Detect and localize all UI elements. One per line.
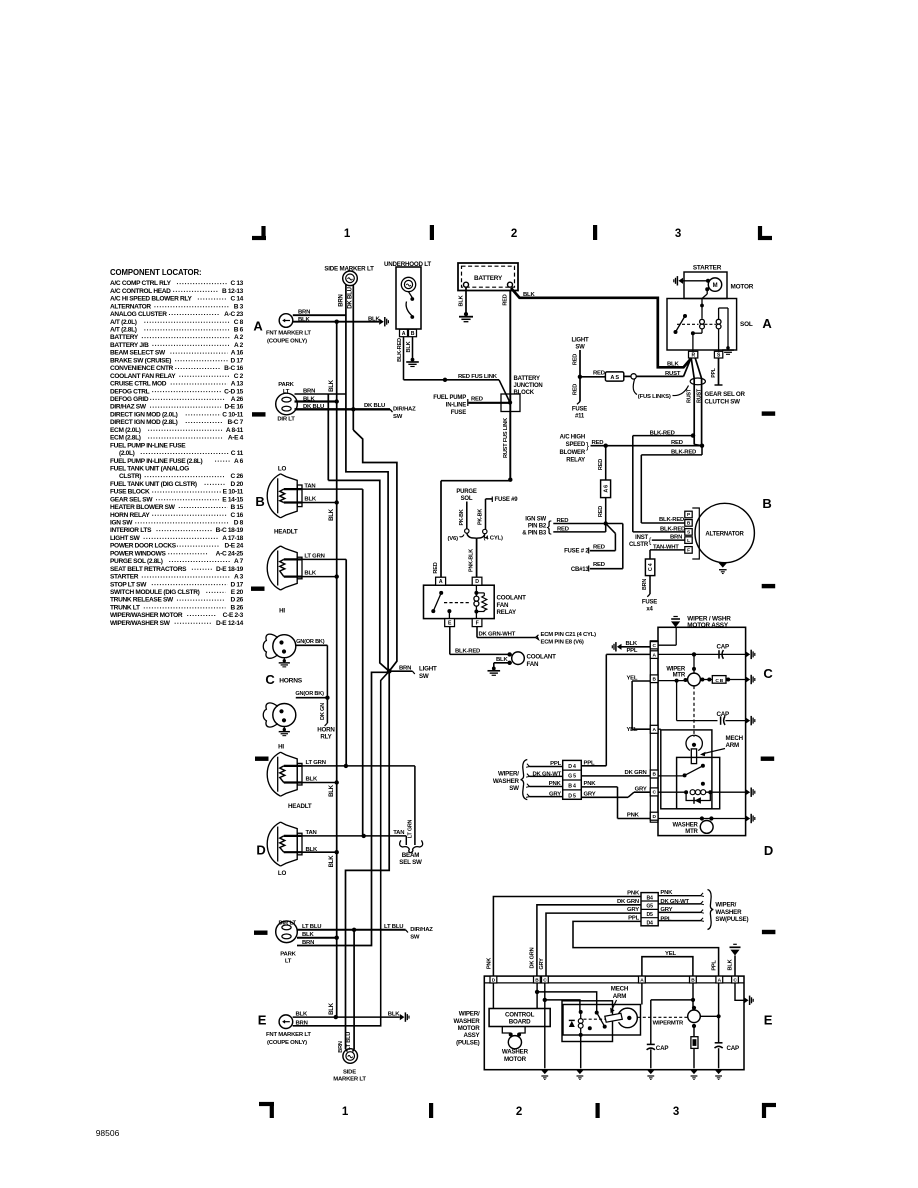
junction node X light sw splice [387, 669, 392, 674]
svg-text:BRN: BRN [296, 1020, 308, 1026]
svg-text:D4: D4 [646, 920, 653, 926]
svg-text:DK BLU: DK BLU [364, 403, 385, 409]
svg-text:BRN: BRN [302, 940, 314, 946]
wire bus LT BLU to side marker bottom [353, 930, 355, 1050]
svg-text:RELAY: RELAY [566, 458, 585, 464]
svg-text:HORNS: HORNS [279, 678, 303, 685]
ground cb pulse [690, 1070, 698, 1074]
svg-text:BLK: BLK [306, 776, 318, 782]
wire stubs from wiper/washer sw brace [530, 766, 563, 768]
wire DK BLU from side marker (vertical bus x=353.3) [352, 285, 354, 430]
connector at right edge (cap2 row) [746, 718, 751, 724]
svg-text:PPL: PPL [660, 916, 671, 922]
relay COOLANT FAN RELAY box [424, 585, 495, 618]
svg-text:G 5: G 5 [568, 774, 576, 780]
svg-text:INTERIOR LTS: INTERIOR LTS [110, 527, 152, 534]
svg-text:YEL: YEL [626, 727, 637, 733]
svg-text:BRN: BRN [339, 294, 345, 306]
svg-text:FNT MARKER LT: FNT MARKER LT [266, 331, 311, 337]
svg-text:STARTER: STARTER [693, 265, 722, 272]
connector at right edge pulse [744, 997, 749, 1003]
wire pin B to wiper mtr and cap 2 [658, 680, 688, 682]
svg-text:BOARD: BOARD [509, 1019, 531, 1026]
frame: left row dash [255, 757, 269, 761]
svg-text:LO: LO [278, 870, 287, 877]
svg-text:WIPER/WASHER MOTOR: WIPER/WASHER MOTOR [110, 612, 183, 619]
svg-text:B-C 7: B-C 7 [228, 419, 244, 426]
ground relay coil pulse [576, 1070, 584, 1074]
wire BRN park lt feed vertical x=328.3 [327, 394, 329, 480]
svg-text:PPL: PPL [711, 960, 717, 971]
pin F coolant fan relay [472, 619, 482, 627]
wiper/washer motor assy box [658, 627, 746, 835]
ground under underhood lt [411, 358, 415, 362]
sol hold-in coil [716, 319, 721, 324]
svg-text:HEATER BLOWER SW: HEATER BLOWER SW [110, 504, 176, 511]
ground cap left pulse [647, 1070, 655, 1074]
svg-text:FUSE: FUSE [451, 410, 466, 416]
svg-text:F: F [687, 548, 690, 554]
frame: bottom grid corner left [259, 1102, 274, 1106]
svg-text:{: { [547, 519, 552, 536]
svg-text:BLK: BLK [329, 508, 335, 521]
svg-text:B: B [255, 494, 264, 509]
svg-text:POWER WINDOWS: POWER WINDOWS [110, 550, 166, 557]
connector at right edge (ppl row) [746, 651, 751, 657]
svg-text:BRN: BRN [670, 535, 682, 541]
fuse A-S [605, 372, 623, 381]
svg-text:DK BLU: DK BLU [348, 287, 354, 308]
svg-text:LT GRN: LT GRN [306, 760, 326, 766]
wire bus LT GRN vertical x=346.2 [345, 559, 347, 766]
wire RUST fusible links from A-S fuse to R terminal [636, 375, 683, 377]
wire pin A2 into mech arm box [658, 728, 661, 730]
svg-text:HI: HI [278, 743, 284, 750]
svg-text:LT: LT [285, 959, 292, 965]
svg-text:BLK: BLK [368, 316, 380, 322]
svg-text:HEADLT: HEADLT [288, 803, 312, 810]
svg-text:D-E 18-19: D-E 18-19 [216, 566, 244, 573]
svg-text:PPL: PPL [584, 761, 595, 767]
ground coolant fan [492, 667, 496, 671]
svg-text:TAN: TAN [393, 830, 404, 836]
frame: bottom grid corner right [762, 1103, 776, 1107]
wire BLK into pin C with ground splice [617, 644, 622, 650]
relay diode pulse [569, 1019, 575, 1021]
svg-text:ALTERNATOR: ALTERNATOR [705, 532, 744, 538]
relay resistor coolant fan relay [476, 592, 484, 594]
svg-text:HEADLT: HEADLT [274, 529, 298, 536]
svg-text:D-E 16: D-E 16 [225, 404, 244, 411]
svg-text:WASHER: WASHER [502, 1049, 529, 1056]
svg-text:E 20: E 20 [231, 589, 244, 596]
svg-text:GRY: GRY [627, 907, 639, 913]
svg-text:IN-LINE: IN-LINE [446, 403, 466, 409]
wiper/washer motor assy pulse box [484, 976, 744, 1070]
pin D pulse box [490, 976, 497, 983]
svg-text:(COUPE ONLY): (COUPE ONLY) [267, 1040, 307, 1046]
svg-text:}: } [586, 440, 589, 450]
svg-text:RED: RED [598, 506, 604, 517]
relay box pulse (inner overlap) [563, 1005, 641, 1036]
svg-text:DIRECT IGN MOD (2.8L): DIRECT IGN MOD (2.8L) [110, 419, 178, 426]
svg-text:CONVENIENCE CNTR: CONVENIENCE CNTR [110, 365, 173, 372]
svg-text:MECH: MECH [611, 986, 629, 993]
pin B pulse box [534, 976, 541, 983]
svg-text:A 7: A 7 [234, 558, 244, 565]
svg-text:D 17: D 17 [230, 357, 243, 364]
horn 2 [273, 704, 296, 727]
svg-text:PK-BK: PK-BK [459, 509, 465, 525]
ground on wiper assy box top [673, 616, 677, 618]
motor M circle [683, 280, 708, 282]
junction node BLK bus top [335, 320, 339, 324]
svg-text:A-E 4: A-E 4 [228, 435, 244, 442]
svg-text:HORN RELAY: HORN RELAY [110, 512, 150, 519]
svg-text:BRN: BRN [642, 579, 648, 590]
svg-text:LIGHT SW: LIGHT SW [110, 535, 141, 542]
svg-text:PPL: PPL [628, 916, 639, 922]
svg-text:SEAT BELT RETRACTORS: SEAT BELT RETRACTORS [110, 566, 187, 573]
control board CONTROL BOARD [489, 1009, 550, 1027]
svg-text:B 3: B 3 [234, 303, 244, 310]
battery B+ feed / RUST FUS LINK vertical [509, 290, 511, 480]
svg-text:BLK: BLK [329, 855, 335, 868]
washer motor WASHER MOTOR [502, 1027, 510, 1034]
svg-text:98506: 98506 [96, 1128, 120, 1138]
wire bus BRN park jog to X [328, 480, 389, 671]
svg-text:ECM (2.0L): ECM (2.0L) [110, 427, 141, 434]
svg-text:BATTERY: BATTERY [474, 275, 503, 282]
wire BLK main vertical bus x=336.7 [336, 322, 338, 1017]
wire RED fuel pump fuse to junction block [469, 402, 511, 404]
svg-text:GRY: GRY [539, 958, 545, 970]
svg-text:MOTOR: MOTOR [458, 1025, 481, 1032]
svg-text:2: 2 [511, 228, 517, 240]
svg-text:3: 3 [673, 1106, 679, 1118]
svg-text:ALTERNATOR: ALTERNATOR [110, 303, 151, 310]
svg-text:BLOCK: BLOCK [514, 390, 535, 396]
svg-text:RUST: RUST [665, 371, 681, 377]
wire bus BRN side marker jog [346, 394, 388, 671]
svg-text:BEAM SELECT SW: BEAM SELECT SW [110, 350, 166, 357]
svg-text:CLUTCH SW: CLUTCH SW [705, 399, 741, 406]
circuit breaker C B [700, 678, 704, 682]
svg-text:A/T (2.8L): A/T (2.8L) [110, 327, 137, 334]
svg-text:FUEL PUMP IN-LINE FUSE: FUEL PUMP IN-LINE FUSE [110, 442, 186, 449]
svg-text:B 4: B 4 [568, 784, 576, 790]
svg-text:MOTOR: MOTOR [731, 284, 754, 291]
svg-text:MTR: MTR [685, 829, 698, 835]
svg-text:WASHER: WASHER [454, 1018, 481, 1025]
frame: left row dash [252, 412, 266, 416]
capacitor CAP pulse left [647, 1043, 655, 1045]
svg-text:RUST: RUST [687, 388, 693, 403]
battery junction block [499, 380, 510, 403]
svg-text:BLK: BLK [304, 571, 316, 577]
svg-text:PURGE: PURGE [456, 489, 477, 495]
wire BRN from side marker (vertical bus x=345.9) [345, 285, 347, 394]
pin C pulse box [542, 976, 549, 983]
svg-text:MARKER LT: MARKER LT [333, 1077, 366, 1083]
svg-text:BLK: BLK [496, 657, 508, 663]
svg-text:D 17: D 17 [230, 581, 243, 588]
svg-text:C: C [763, 666, 773, 681]
svg-text:COOLANT: COOLANT [527, 654, 557, 661]
pin B alternator [685, 520, 692, 527]
svg-text:A 16: A 16 [231, 350, 244, 357]
svg-text:RLY: RLY [320, 734, 332, 741]
wire pin B to control board and relay [536, 983, 538, 1009]
svg-text:LT GRN: LT GRN [407, 819, 413, 838]
svg-text:YEL: YEL [665, 951, 676, 957]
svg-text:SW: SW [410, 934, 420, 940]
svg-text:A 6: A 6 [604, 485, 610, 493]
svg-text:D: D [475, 579, 479, 585]
svg-text:BLK-RED: BLK-RED [659, 517, 684, 523]
svg-text:FAN: FAN [527, 661, 540, 668]
pin B2 wiper assy (dk grn) [650, 770, 658, 778]
pin C wiper assy (blk ground) [650, 642, 658, 649]
svg-text:BLK: BLK [406, 341, 412, 352]
relay coil pulse [579, 1010, 583, 1014]
brace wiper/washer sw [521, 760, 528, 800]
svg-text:BRN: BRN [399, 666, 411, 672]
wire wiper mtr to ppl vertical [700, 1015, 718, 1017]
svg-text:SIDE: SIDE [343, 1070, 356, 1076]
svg-text:CAP: CAP [656, 1045, 669, 1052]
wire branch to cap left [651, 999, 693, 1001]
svg-text:D 26: D 26 [230, 597, 243, 604]
svg-text:GN(OR BK): GN(OR BK) [296, 639, 325, 645]
ground sol coil [726, 346, 730, 350]
svg-text:PARK: PARK [280, 952, 296, 958]
svg-text:& PIN B3: & PIN B3 [522, 531, 547, 537]
svg-text:BLK-RED: BLK-RED [671, 449, 696, 455]
svg-text:A/C HIGH: A/C HIGH [560, 434, 585, 440]
svg-text:WIPER/: WIPER/ [715, 902, 736, 909]
switch inside underhood lt [409, 292, 413, 298]
lamp FNT MARKER LT row E [279, 1015, 293, 1029]
svg-text:E 14-15: E 14-15 [222, 496, 243, 503]
svg-text:PPL: PPL [711, 367, 717, 378]
svg-text:BATTERY: BATTERY [110, 334, 139, 341]
svg-text:PK-BK: PK-BK [477, 509, 483, 525]
svg-text:IGN SW: IGN SW [110, 520, 133, 527]
frame: top grid tick 2-3 [593, 225, 597, 240]
svg-text:(4 CYL): (4 CYL) [484, 535, 503, 541]
svg-text:JUNCTION: JUNCTION [514, 383, 543, 389]
pin E coolant fan relay [445, 619, 455, 627]
pin B underhood lt [409, 329, 417, 336]
svg-text:WASHER: WASHER [673, 823, 699, 829]
wire PK-BK from fuse 9 (4 CYL) [486, 498, 493, 500]
headlamp LO row D [267, 822, 280, 866]
svg-text:IGN SW: IGN SW [525, 517, 546, 523]
svg-text:C 11: C 11 [231, 450, 244, 457]
svg-text:C 26: C 26 [230, 473, 243, 480]
alternator ALTERNATOR [695, 503, 754, 562]
wire DK GRN pulse to pin B [537, 905, 641, 976]
svg-text:HI: HI [279, 608, 285, 615]
svg-text:SEL SW: SEL SW [399, 859, 422, 866]
ground cap right pulse [715, 1070, 723, 1074]
mechanical link dashed wiper mtr to mech arm [693, 686, 695, 737]
svg-text:TAN: TAN [306, 830, 317, 836]
wiper motor WIPER MTR [693, 654, 695, 673]
pin D wiper assy (pnk washer) [650, 812, 658, 820]
frame: top grid tick 1-2 [430, 225, 434, 240]
wire BLK battery to starter (thick) [511, 288, 691, 367]
svg-text:GEAR SEL SW: GEAR SEL SW [110, 496, 153, 503]
svg-text:D-E 24: D-E 24 [225, 543, 244, 550]
svg-text:CRUISE CTRL MOD: CRUISE CTRL MOD [110, 381, 167, 388]
dashed link coil to arm [584, 1018, 606, 1020]
fuse A 6 [605, 446, 607, 480]
svg-text:R: R [691, 352, 695, 358]
svg-text:B4: B4 [646, 895, 653, 901]
pin A pulse box (left) [639, 976, 646, 983]
svg-text:BLK: BLK [329, 379, 335, 392]
svg-text:CAP: CAP [727, 1045, 740, 1052]
svg-text:RELAY: RELAY [497, 609, 517, 616]
svg-text:RED: RED [503, 294, 509, 305]
svg-text:BRAKE SW (CRUISE): BRAKE SW (CRUISE) [110, 357, 171, 364]
svg-text:ASSY: ASSY [463, 1032, 480, 1039]
wire PK-BK from purge sol (V6) [466, 502, 468, 529]
svg-text:POWER DOOR LOCKS: POWER DOOR LOCKS [110, 543, 177, 550]
wire BRN X to park lt D (via x=371.5) [297, 672, 389, 945]
svg-text:A 13: A 13 [231, 381, 244, 388]
sol switch contacts [683, 314, 687, 318]
ground horn 2 [283, 727, 285, 730]
dashed link arm to wiper mtr [638, 1016, 688, 1018]
svg-text:DIR/HAZ SW: DIR/HAZ SW [110, 404, 147, 411]
svg-text:STARTER: STARTER [110, 574, 139, 581]
relay coil coolant fan relay [474, 591, 478, 595]
svg-text:1: 1 [342, 1106, 349, 1118]
svg-text:WASHER: WASHER [493, 778, 520, 785]
svg-text:CLSTR): CLSTR) [119, 473, 141, 480]
ground splice symbol row A [379, 319, 384, 325]
relay switch pulse [595, 1011, 599, 1015]
wire PNK pulse to pin D [493, 897, 641, 977]
svg-text:ECM PIN C21 (4 CYL): ECM PIN C21 (4 CYL) [541, 632, 597, 638]
svg-text:B-C 18-19: B-C 18-19 [216, 527, 244, 534]
svg-text:A-C 24-25: A-C 24-25 [216, 550, 244, 557]
wire ppl vertical through cap right to ground [718, 983, 720, 1043]
pin P alternator [685, 511, 692, 518]
svg-text:RED: RED [593, 544, 605, 550]
pin C pulse box (right) [732, 976, 739, 983]
svg-text:PNK: PNK [487, 958, 493, 969]
wire BLK-RED lower (to alternator B) [701, 446, 703, 455]
svg-text:RED: RED [671, 440, 683, 446]
pin A underhood lt [400, 329, 408, 336]
svg-text:A 17-18: A 17-18 [222, 535, 243, 542]
wire PNK-BLK to relay pin D [476, 539, 478, 578]
ground battery [464, 312, 468, 316]
svg-text:ECM PIN E8 (V6): ECM PIN E8 (V6) [541, 640, 584, 646]
svg-text:COMPONENT LOCATOR:: COMPONENT LOCATOR: [110, 268, 201, 277]
svg-text:GN(OR BK): GN(OR BK) [295, 691, 324, 697]
svg-text:C B: C B [715, 678, 723, 684]
svg-text:COOLANT: COOLANT [497, 594, 527, 601]
svg-text:PNK: PNK [627, 813, 640, 819]
svg-text:RED FUS LINK: RED FUS LINK [458, 374, 498, 380]
relay box pulse (outer) [562, 1001, 613, 1042]
svg-text:(COUPE ONLY): (COUPE ONLY) [267, 338, 307, 344]
svg-text:RED: RED [572, 384, 578, 395]
connector at right edge (pnk row) [746, 815, 751, 821]
wire pin D to control board [492, 983, 494, 1009]
wire YEL pins A-B pulse [642, 957, 693, 976]
wire GRY pulse to pin C [546, 913, 641, 976]
ground horn 1 [283, 658, 285, 661]
diode loop under park switch [686, 792, 710, 800]
pin S starter solenoid [714, 351, 722, 358]
svg-text:A/C COMP CTRL RLY: A/C COMP CTRL RLY [110, 280, 172, 287]
pin C2 wiper assy (gry) [650, 788, 658, 796]
lamp FNT MARKER LT row A [279, 314, 293, 328]
svg-text:ECM (2.8L): ECM (2.8L) [110, 435, 141, 442]
wire pin B right to wiper mtr [692, 983, 694, 1010]
svg-text:RED: RED [598, 459, 604, 470]
wire PPL from S terminal [718, 358, 720, 385]
solenoid SOL box [667, 299, 737, 351]
svg-text:TRUNK LT: TRUNK LT [110, 604, 140, 611]
svg-text:D: D [256, 843, 265, 858]
svg-text:A/C CONTROL HEAD: A/C CONTROL HEAD [110, 288, 171, 295]
svg-text:DK GN: DK GN [320, 703, 326, 720]
brace wiper/washer sw pulse [708, 890, 714, 930]
motor COOLANT FAN [512, 652, 525, 665]
svg-text:PPL: PPL [626, 648, 637, 654]
svg-text:WIPER/: WIPER/ [498, 771, 519, 778]
svg-text:WIPERMTR: WIPERMTR [653, 1021, 684, 1027]
wire BLK-RED from relay E to coolant fan [449, 627, 451, 655]
svg-text:BLK: BLK [667, 361, 679, 367]
pin B wiper assy (yel) [650, 675, 658, 683]
svg-text:BLOWER: BLOWER [560, 450, 586, 456]
headlamp HI row B [267, 546, 280, 590]
svg-text:B 6: B 6 [234, 327, 244, 334]
svg-text:SWITCH MODULE (DIG CLSTR): SWITCH MODULE (DIG CLSTR) [110, 589, 200, 596]
svg-text:SW: SW [575, 345, 585, 351]
svg-text:DEFOG GRID: DEFOG GRID [110, 396, 149, 403]
svg-text:MOTOR ASSY: MOTOR ASSY [687, 622, 729, 629]
fuse C 4 [645, 559, 654, 576]
fuse FUSE #11 [577, 402, 580, 405]
svg-text:MECH: MECH [726, 735, 744, 742]
wiper assy left connector strip [650, 641, 658, 822]
svg-text:DK GRN: DK GRN [617, 899, 639, 905]
svg-text:RUST: RUST [697, 388, 703, 403]
svg-text:RED: RED [433, 562, 439, 573]
svg-text:TRUNK RELEASE SW: TRUNK RELEASE SW [110, 597, 174, 604]
frame: left row dash [251, 587, 265, 591]
coil winding in park switch [658, 791, 687, 793]
svg-text:D 4: D 4 [568, 764, 576, 770]
svg-text:DK GRN-WHT: DK GRN-WHT [479, 632, 516, 638]
connector at right edge (gry row) [746, 789, 751, 795]
battery BATTERY [458, 263, 518, 291]
svg-text:DIR/HAZ: DIR/HAZ [393, 407, 416, 413]
svg-text:WIPER/: WIPER/ [459, 1011, 480, 1018]
svg-text:#11: #11 [575, 413, 585, 419]
ground splice symbol row E [400, 1014, 405, 1020]
svg-text:FUSE: FUSE [572, 406, 587, 412]
